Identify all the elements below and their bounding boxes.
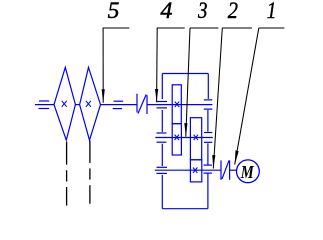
svg-text:4: 4	[160, 0, 172, 23]
svg-text:2: 2	[228, 0, 238, 23]
svg-text:M: M	[240, 162, 255, 182]
svg-text:1: 1	[267, 0, 277, 23]
svg-text:3: 3	[197, 0, 207, 23]
svg-text:5: 5	[108, 0, 120, 23]
